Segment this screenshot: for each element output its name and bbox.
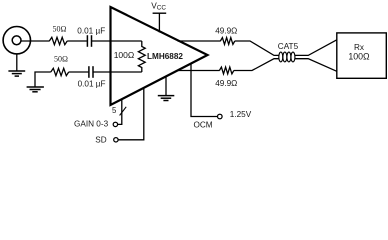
capacitor C1 0.01 µF (top input) (87, 35, 91, 47)
wire R5 to twisted pair (234, 59, 279, 71)
wire SD terminal to op-amp (118, 88, 144, 140)
svg-text:100Ω: 100Ω (114, 50, 135, 60)
wire ground up to bottom input branch (35, 72, 51, 87)
svg-text:49.9Ω: 49.9Ω (215, 26, 237, 35)
svg-text:GAIN 0-3: GAIN 0-3 (74, 119, 109, 128)
svg-text:OCM: OCM (194, 120, 213, 129)
pin GAIN terminal circle (113, 122, 117, 126)
svg-text:SD: SD (95, 136, 106, 145)
capacitor C2 0.01 µF (bottom input) (89, 66, 93, 78)
wire twisted pair to Rx load (bottom) (295, 59, 337, 72)
resistor R1 50Ω (top input) (49, 37, 67, 44)
resistor R2 50Ω (bottom input) (51, 68, 69, 75)
svg-text:50Ω: 50Ω (54, 54, 68, 63)
BNC connector J1 inner circle (12, 36, 21, 45)
svg-text:0.01 µF: 0.01 µF (77, 26, 105, 35)
wire OCM pin down from op-amp (191, 64, 218, 116)
internal input termination: bottom lead (112, 71, 142, 73)
svg-text:100Ω: 100Ω (348, 51, 370, 61)
pin SD terminal circle (114, 138, 118, 142)
bus-width slash (5 lines) (120, 107, 127, 116)
wire BNC shell to ground (16, 54, 18, 71)
wire C1 to op-amp input (92, 40, 111, 42)
svg-text:CAT5: CAT5 (278, 42, 299, 51)
twisted pair CAT5 coil loops (279, 52, 295, 62)
wire GAIN terminal to op-amp (118, 100, 122, 125)
pin OCM terminal circle (218, 114, 223, 119)
internal input termination: top lead (112, 40, 142, 42)
resistor R4 49.9Ω (top output) (220, 38, 234, 45)
wire BNC center to resistor R1 (21, 40, 50, 42)
wire R4 to twisted pair (235, 41, 279, 55)
svg-text:1.25V: 1.25V (230, 110, 252, 119)
resistor R3 100Ω (internal differential termination) (138, 41, 145, 72)
ground (op-amp VEE) (165, 77, 167, 96)
svg-text:49.9Ω: 49.9Ω (215, 79, 237, 88)
receiver load box Rx (337, 33, 387, 78)
wire op-amp -out to R5 (178, 70, 220, 72)
svg-text:0.01 µF: 0.01 µF (78, 80, 106, 89)
resistor R5 49.9Ω (bottom output) (219, 67, 233, 74)
svg-text:5: 5 (112, 106, 117, 115)
svg-text:50Ω: 50Ω (53, 25, 67, 34)
wire twisted pair to Rx load (top) (295, 40, 337, 56)
ground (BNC shell) (8, 71, 25, 76)
op-amp U1 LMH6882 triangle (111, 7, 208, 105)
ground (bottom input) (27, 87, 44, 92)
wire R2 to C2 (69, 71, 89, 73)
wire VCC to op-amp (158, 13, 160, 32)
wire R1 to C1 (67, 40, 87, 42)
wire op-amp +out to R4 (178, 40, 221, 42)
wire C2 to op-amp input (94, 71, 112, 73)
VCC supply bar (153, 12, 167, 14)
svg-text:LMH6882: LMH6882 (147, 52, 183, 61)
BNC connector J1 outer circle (3, 27, 30, 54)
